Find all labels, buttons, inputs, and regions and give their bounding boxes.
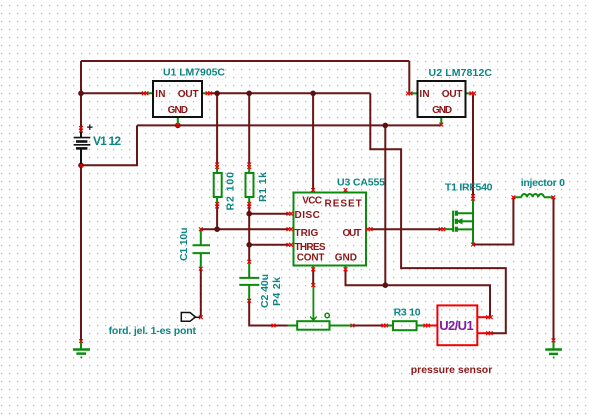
pin R3 right sensor left — [424, 324, 430, 328]
connector pinhead — [181, 313, 200, 322]
pin T1 gate — [439, 227, 445, 231]
op-amp U3 box — [294, 193, 367, 266]
svg-text:OUT: OUT — [178, 89, 199, 100]
wire battery minus right jog — [81, 125, 137, 165]
svg-text:pressure sensor: pressure sensor — [411, 364, 493, 376]
node THRES R1 — [246, 242, 252, 248]
svg-text:IN: IN — [155, 89, 165, 100]
svg-text:R1 1k: R1 1k — [257, 172, 269, 202]
wire R2 top feed — [216, 93, 218, 165]
svg-text:GND: GND — [168, 105, 188, 116]
svg-text:P4 2k: P4 2k — [271, 277, 283, 306]
node battery minus corner — [78, 163, 84, 169]
U2 pin stubs — [409, 93, 472, 124]
pin pot left — [272, 324, 276, 328]
inductor injector — [513, 194, 553, 197]
svg-text:V1 12: V1 12 — [93, 134, 121, 148]
ground right — [545, 340, 562, 358]
resistor R3 — [385, 321, 427, 330]
node DISC R1 — [246, 211, 252, 217]
pin U2 IN — [406, 92, 412, 96]
wire OUT rail down to sensor — [370, 93, 506, 333]
potentiometer P4 — [288, 285, 353, 330]
regulator U1 box — [153, 81, 202, 117]
wire 555 VCC feed — [312, 93, 314, 190]
wire R1 top feed — [248, 93, 250, 165]
pin 555 OUT — [366, 227, 372, 231]
wire mosfet source to injector — [473, 197, 513, 244]
node TRIG R2 — [214, 226, 220, 232]
svg-text:CONT: CONT — [297, 253, 325, 264]
svg-text:+: + — [87, 122, 93, 134]
svg-text:VCC: VCC — [302, 195, 322, 206]
pin T1 source — [471, 243, 475, 247]
wire C2 bottom to pot — [249, 301, 287, 326]
node battery plus / U1 IN — [78, 91, 84, 97]
pin T1 drain — [471, 194, 475, 200]
pin battery plus — [79, 126, 83, 132]
resistor R2 — [214, 166, 222, 206]
svg-text:ford. jel. 1-es pont: ford. jel. 1-es pont — [109, 325, 197, 337]
pin 555 GND — [344, 267, 348, 271]
svg-text:TRIG: TRIG — [295, 228, 319, 239]
pin ground left — [79, 339, 83, 343]
wire TRIG — [201, 228, 290, 230]
capacitor C1 — [193, 230, 211, 269]
wire U1 IN feed — [81, 92, 145, 94]
pin pot right — [351, 324, 355, 328]
pin battery minus — [79, 163, 83, 167]
wire THRES — [249, 244, 289, 246]
pin pot wiper — [311, 283, 315, 287]
pin U2 GND — [439, 123, 443, 127]
svg-text:OUT: OUT — [343, 228, 362, 239]
wire R2 bottom to TRIG — [216, 205, 218, 230]
pin 555 DISC — [287, 212, 293, 216]
svg-text:GND: GND — [432, 105, 452, 116]
wire injector to ground — [553, 197, 555, 340]
wire pot to R3 — [352, 325, 384, 327]
pin R1 bottom — [247, 202, 251, 208]
wire DISC — [249, 213, 289, 215]
svg-text:U2/U1: U2/U1 — [439, 318, 474, 333]
ground left — [73, 341, 90, 358]
pin sensor right bottom — [486, 331, 492, 335]
pin injector right — [551, 195, 555, 199]
wire CONT stub — [312, 269, 314, 285]
node R2 top — [214, 91, 220, 97]
svg-text:U1 LM7905C: U1 LM7905C — [163, 67, 225, 79]
node U1 GND — [175, 123, 181, 129]
wire top +12V horizontal — [81, 60, 409, 62]
resistor R1 — [246, 166, 254, 206]
wire battery minus to ground — [80, 165, 82, 341]
svg-text:THRES: THRES — [295, 242, 326, 253]
pin R2 bottom — [215, 202, 219, 208]
svg-text:T1 IRF540: T1 IRF540 — [445, 181, 493, 193]
pin U1 IN — [142, 91, 148, 95]
pin connector tip — [199, 315, 203, 319]
wire U1 OUT rail — [209, 92, 370, 94]
node VCC feed — [310, 91, 316, 97]
pin R3 left — [382, 324, 388, 328]
wire U2 IN drop — [408, 61, 410, 93]
pin U1 OUT — [206, 91, 212, 95]
pin 555 CONT — [311, 267, 315, 271]
U1 pin stubs — [145, 93, 209, 125]
svg-text:C1 10u: C1 10u — [178, 228, 190, 262]
wire gnd branch down — [384, 125, 386, 285]
pin 555 TRIG — [287, 227, 293, 231]
sensor U2/U1 box — [427, 305, 490, 345]
wire U2 OUT to drain — [472, 93, 474, 197]
node 555 GND branch — [383, 282, 389, 288]
U3 pin stubs — [313, 190, 345, 269]
svg-text:C2 40u: C2 40u — [259, 274, 271, 308]
svg-text:OUT: OUT — [442, 89, 463, 100]
regulator U2 box — [418, 81, 466, 117]
pin C2 bottom — [247, 299, 251, 303]
svg-text:R3 10: R3 10 — [394, 307, 421, 319]
pin 555 VCC — [311, 188, 315, 192]
pin U1 GND — [176, 124, 180, 128]
svg-text:IN: IN — [419, 89, 429, 100]
wire R1 bottom to C2 top — [248, 205, 250, 262]
capacitor C2 — [239, 262, 259, 301]
node gnd branch — [383, 123, 389, 129]
pin R1 top — [247, 163, 251, 169]
battery V1 — [74, 128, 91, 165]
transistor T1 mosfet — [443, 197, 473, 243]
pin 555 RESET — [344, 188, 348, 192]
wire C1 bottom — [200, 269, 202, 318]
svg-text:injector 0: injector 0 — [521, 177, 565, 189]
pin C1 top — [199, 227, 203, 231]
pin 555 THRES — [287, 243, 293, 247]
wire gnd horizontal main — [137, 124, 441, 126]
pin C2 top — [247, 260, 251, 264]
svg-text:R2 100: R2 100 — [225, 172, 237, 211]
svg-text:RESET: RESET — [325, 198, 362, 209]
pin ground right — [552, 339, 556, 343]
pin R2 top — [215, 163, 219, 169]
svg-text:GND: GND — [335, 253, 357, 264]
node R1 top — [246, 91, 252, 97]
wire 555 OUT to gate — [370, 228, 443, 230]
svg-text:DISC: DISC — [295, 210, 320, 221]
wire battery plus vertical — [80, 61, 82, 128]
pin U2 OUT — [470, 92, 476, 96]
svg-text:U3 CA555: U3 CA555 — [337, 176, 385, 188]
pin sensor right top — [486, 315, 492, 319]
pin C1 bottom — [199, 267, 203, 271]
wire 555 GND run — [346, 269, 491, 317]
svg-text:U2 LM7812C: U2 LM7812C — [429, 67, 493, 79]
pin injector left — [512, 195, 516, 199]
